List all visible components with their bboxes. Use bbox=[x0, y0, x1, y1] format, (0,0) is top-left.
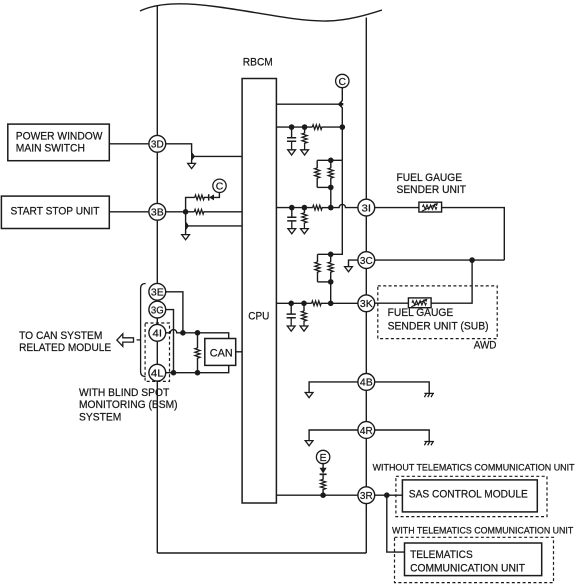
svg-text:MAIN SWITCH: MAIN SWITCH bbox=[16, 143, 85, 155]
wire: resistor to 3R row bbox=[322, 490, 324, 496]
ground arrow below capacitor C1 bbox=[288, 150, 296, 155]
chassis ground 4R right bbox=[424, 442, 434, 446]
connector 3D bbox=[149, 135, 166, 152]
ground arrow on 3C left branch bbox=[345, 267, 353, 272]
wire: C down to splice bbox=[339, 87, 343, 160]
dashed box FUEL GAUGE SENDER UNIT (SUB) bbox=[378, 286, 497, 339]
wire: pair-1 down to 3I row bbox=[330, 187, 332, 207]
wire: CAN box to CPU bbox=[236, 351, 242, 353]
svg-text:4L: 4L bbox=[151, 369, 164, 380]
junction dot 3K row capacitor bbox=[288, 301, 294, 307]
splice arrow at 3D branch bbox=[191, 152, 195, 160]
svg-text:SAS CONTROL MODULE: SAS CONTROL MODULE bbox=[409, 489, 528, 501]
junction dot 3E/4I bbox=[180, 330, 186, 336]
capacitor C3 on 3K row bbox=[287, 303, 296, 326]
wire: 3I row from CPU bbox=[276, 207, 312, 209]
connector 3E bbox=[149, 283, 166, 300]
wire: pair-1 bottom rail bbox=[317, 186, 331, 188]
wire: 3R to SAS control module bbox=[375, 494, 403, 496]
op-amp U1 CPU box bbox=[242, 79, 276, 504]
junction dot 3I row pair-1 bbox=[328, 205, 334, 211]
CAN controller box bbox=[205, 339, 236, 366]
junction dot E branch bbox=[320, 492, 326, 498]
wire: 4R left arm bbox=[309, 430, 360, 441]
junction dot 3B bbox=[183, 209, 189, 215]
ground arrow 4R left bbox=[305, 441, 313, 446]
wire: RBCM bottom boundary bbox=[157, 552, 366, 554]
node C (joint connector) bbox=[213, 179, 226, 193]
connector 3G bbox=[149, 301, 166, 318]
wire: 3C row to sender loop bbox=[375, 259, 505, 261]
CAN termination resistor bbox=[195, 333, 200, 373]
ground arrow below 3B splice bbox=[182, 235, 190, 240]
wire: fuel gauge sender loop to 3C row bbox=[442, 208, 505, 261]
dashed box with telematics bbox=[395, 537, 554, 582]
connector 3C bbox=[358, 252, 375, 269]
wire: resistor to C line bbox=[322, 126, 342, 128]
wire: CPU to C splice bbox=[276, 103, 339, 105]
svg-text:3G: 3G bbox=[151, 305, 164, 316]
ground arrow below resistor R1 bbox=[301, 150, 309, 155]
wire: 3E down to 4I row bbox=[166, 292, 183, 333]
svg-text:TO CAN SYSTEM: TO CAN SYSTEM bbox=[19, 330, 102, 342]
component box TELEMATICS COMMUNICATION UNIT bbox=[405, 543, 542, 576]
wire: 3R junction down to telematics unit bbox=[387, 495, 404, 552]
wire: 3B row to resistor bbox=[186, 211, 195, 213]
svg-text:3C: 3C bbox=[360, 256, 373, 267]
svg-text:AWD: AWD bbox=[474, 340, 497, 352]
wire: diode to resistor bbox=[322, 474, 324, 479]
wire: 3B to junction bbox=[166, 211, 186, 213]
resistor R2 to ground on 3I row bbox=[302, 208, 307, 229]
junction dot row127 resistor bbox=[302, 124, 308, 130]
junction dot 4L/resistor bbox=[195, 370, 201, 376]
wire: pair-1 top rail bbox=[317, 159, 342, 161]
wire: RBCM left boundary bbox=[156, 6, 158, 554]
svg-text:3B: 3B bbox=[151, 208, 164, 219]
junction dot 4I/resistor bbox=[195, 330, 201, 336]
resistor R3 to ground on 3K row bbox=[301, 303, 306, 326]
block arrow to CAN system bbox=[117, 334, 134, 347]
svg-text:4R: 4R bbox=[360, 426, 373, 437]
bracket around connectors 3E-4L bbox=[141, 284, 146, 377]
wire: CPU pull-up row (127) bbox=[276, 126, 312, 128]
connector 4B bbox=[358, 374, 375, 391]
wire: 3D branch into CPU bbox=[194, 155, 242, 157]
junction dot row127 capacitor bbox=[289, 124, 295, 130]
wire: 3R row from CPU bbox=[276, 494, 359, 496]
wire: 4B right arm bbox=[375, 382, 430, 394]
wire: PWMS to 3D bbox=[109, 143, 150, 145]
wire: 4B left arm bbox=[309, 382, 360, 393]
component box SAS CONTROL MODULE bbox=[402, 480, 537, 512]
wire: SSU to 3B bbox=[109, 211, 150, 213]
junction dot 3I row resistor bbox=[302, 205, 308, 211]
wire: 3B lower branch bbox=[186, 212, 189, 235]
wire: C line into pair-2 top rail bbox=[318, 160, 343, 254]
resistor pair-2 left bbox=[315, 254, 320, 282]
svg-text:POWER WINDOW: POWER WINDOW bbox=[16, 131, 103, 143]
wire: 3B branch up to diode row bbox=[186, 197, 195, 211]
svg-text:3K: 3K bbox=[360, 299, 373, 310]
svg-text:COMMUNICATION UNIT: COMMUNICATION UNIT bbox=[410, 562, 525, 574]
junction dot 3C row bbox=[469, 257, 475, 263]
junction dot row127/C line bbox=[340, 124, 346, 130]
wire: 3C left branch bbox=[349, 260, 360, 267]
connector 4I bbox=[149, 324, 166, 341]
resistor series on row 127 bbox=[312, 125, 322, 130]
junction dot pair-1 bottom bbox=[328, 185, 334, 191]
fuel gauge sender unit (sub) variable resistor bbox=[408, 298, 431, 308]
svg-text:3R: 3R bbox=[360, 491, 373, 502]
svg-text:START STOP UNIT: START STOP UNIT bbox=[11, 205, 100, 217]
resistor on 3B row bbox=[194, 209, 204, 214]
connector 3I bbox=[358, 199, 375, 216]
connector 4R bbox=[358, 422, 375, 439]
dashed box without telematics bbox=[396, 476, 547, 516]
wire: 3G down to 4L row bbox=[166, 310, 174, 373]
resistor series on 3K row bbox=[312, 301, 322, 306]
resistor series on 3I row bbox=[313, 205, 323, 210]
svg-text:CPU: CPU bbox=[248, 311, 269, 323]
wire: 3I row hop over C line bbox=[331, 204, 360, 207]
wire: E to diode bbox=[322, 463, 324, 469]
resistor on 3B diode branch bbox=[195, 195, 205, 200]
svg-text:C: C bbox=[216, 182, 224, 193]
junction dot 3R branch bbox=[384, 492, 390, 498]
svg-text:WITH TELEMATICS COMMUNICATION: WITH TELEMATICS COMMUNICATION UNIT bbox=[392, 526, 574, 536]
ground arrow below 3D splice bbox=[188, 163, 196, 168]
svg-text:SYSTEM: SYSTEM bbox=[79, 411, 121, 423]
junction dot 3I row capacitor bbox=[289, 205, 295, 211]
junction dot 3K row pair-2 bbox=[328, 301, 334, 307]
svg-text:CAN: CAN bbox=[210, 348, 233, 360]
svg-text:WITHOUT TELEMATICS COMMUNICATI: WITHOUT TELEMATICS COMMUNICATION UNIT bbox=[373, 462, 575, 472]
svg-text:3D: 3D bbox=[151, 140, 164, 151]
svg-text:FUEL GAUGE: FUEL GAUGE bbox=[397, 172, 463, 184]
wire: 3K row from CPU bbox=[276, 302, 311, 304]
wire: 3I to fuel gauge sender bbox=[375, 207, 419, 209]
svg-text:TELEMATICS: TELEMATICS bbox=[410, 549, 473, 561]
resistor R4 on E branch bbox=[321, 479, 326, 489]
junction dot pair-2 top bbox=[328, 252, 334, 258]
chassis ground 4B right bbox=[424, 393, 434, 397]
wire: 3D branch elbow bbox=[166, 144, 195, 164]
node C (joint connector, top) bbox=[336, 74, 349, 88]
svg-text:MONITORING (BSM): MONITORING (BSM) bbox=[79, 399, 178, 411]
splice arrow at 3B lower branch bbox=[185, 222, 189, 230]
svg-text:SENDER UNIT: SENDER UNIT bbox=[397, 184, 467, 196]
junction dot pair-1 top bbox=[328, 158, 334, 164]
svg-text:4I: 4I bbox=[153, 329, 163, 340]
svg-text:FUEL GAUGE: FUEL GAUGE bbox=[388, 307, 454, 319]
wire: 4R right arm bbox=[375, 430, 430, 442]
connector 4L bbox=[149, 364, 166, 381]
wire: 4L row bbox=[166, 365, 229, 372]
ground arrow below capacitor C2 bbox=[288, 229, 296, 234]
svg-text:RELATED MODULE: RELATED MODULE bbox=[19, 342, 111, 354]
ground arrow below capacitor C3 bbox=[287, 326, 295, 331]
dashed box around 4I and 4L bbox=[145, 323, 169, 381]
svg-text:3E: 3E bbox=[151, 288, 164, 299]
svg-text:3I: 3I bbox=[362, 203, 372, 214]
connector 3R bbox=[358, 487, 375, 504]
svg-text:4B: 4B bbox=[360, 378, 373, 389]
wire: pair-2 bottom rail bbox=[318, 281, 331, 283]
node E (joint connector) bbox=[316, 450, 329, 464]
splice arrow at C line bbox=[338, 101, 343, 108]
svg-text:WITH BLIND SPOT: WITH BLIND SPOT bbox=[79, 387, 170, 399]
wire: diode to joint C bbox=[214, 192, 220, 198]
component box POWER WINDOW MAIN SWITCH bbox=[8, 124, 110, 161]
wire: 3B row into CPU bbox=[204, 211, 242, 213]
wire: 3K row resistor to connector bbox=[321, 302, 359, 304]
wire: junction down to sub sender bbox=[431, 260, 472, 303]
connector 3K bbox=[358, 295, 375, 312]
resistor pair-1 left bbox=[315, 160, 320, 187]
junction dot pair-2 bottom bbox=[328, 279, 334, 285]
capacitor C2 on 3I row bbox=[287, 208, 296, 229]
svg-text:SENDER UNIT (SUB): SENDER UNIT (SUB) bbox=[388, 321, 489, 333]
ground arrow 4B left bbox=[305, 393, 313, 398]
capacitor C1 on row 127 bbox=[287, 127, 296, 150]
resistor R1 to ground on row 127 bbox=[302, 127, 307, 150]
wire: 4I row with hop over 3G wire bbox=[166, 330, 229, 339]
wire: pair-2 down to 3K row bbox=[330, 282, 332, 303]
wire: 3B lower branch into CPU bbox=[188, 225, 242, 227]
svg-text:E: E bbox=[320, 453, 327, 464]
RBCM harness break (wavy top edge) bbox=[140, 4, 382, 21]
junction dot 3K row resistor bbox=[301, 301, 307, 307]
wire: resistor to diode bbox=[204, 196, 208, 198]
resistor pair-1 right bbox=[328, 160, 333, 187]
connector 3B bbox=[149, 203, 166, 220]
junction dot 3G/4L bbox=[171, 370, 177, 376]
svg-text:C: C bbox=[339, 77, 347, 88]
resistor pair-2 right bbox=[328, 254, 333, 282]
ground arrow below resistor R2 bbox=[301, 229, 309, 234]
wire: 3I row resistor to junction bbox=[322, 207, 331, 209]
component box START STOP UNIT bbox=[1, 196, 109, 228]
ground arrow below resistor R3 bbox=[300, 326, 308, 331]
svg-text:RBCM: RBCM bbox=[243, 57, 273, 69]
wire: RBCM right boundary bbox=[365, 18, 367, 554]
diode D1 (cathode left) bbox=[209, 194, 214, 200]
diode D2 (cathode down) bbox=[320, 468, 327, 475]
tick from bracket to arrow bbox=[137, 339, 141, 341]
fuel gauge sender unit variable resistor bbox=[419, 202, 442, 212]
wire: 3K to sub sender resistor bbox=[375, 302, 409, 304]
